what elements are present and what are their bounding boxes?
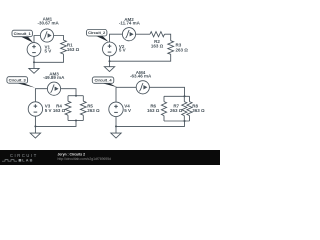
svg-text:163 Ω: 163 Ω bbox=[151, 44, 164, 49]
svg-text:5 V: 5 V bbox=[119, 48, 126, 53]
svg-text:Circuit_3: Circuit_3 bbox=[9, 77, 27, 82]
svg-text:163 Ω: 163 Ω bbox=[67, 47, 80, 52]
svg-text:Circuit_4: Circuit_4 bbox=[94, 78, 112, 83]
svg-text:Circuit_1: Circuit_1 bbox=[14, 31, 32, 36]
svg-text:-30.67 mA: -30.67 mA bbox=[37, 20, 59, 25]
svg-text:LAB: LAB bbox=[22, 158, 33, 163]
svg-text:Jeryn : Circuits 2: Jeryn : Circuits 2 bbox=[58, 153, 86, 157]
svg-text:5 V: 5 V bbox=[124, 108, 131, 113]
svg-text:363 Ω: 363 Ω bbox=[192, 108, 205, 113]
svg-text:-11.74 mA: -11.74 mA bbox=[119, 20, 141, 25]
svg-text:263 Ω: 263 Ω bbox=[176, 47, 189, 52]
svg-text:163 Ω: 163 Ω bbox=[147, 108, 160, 113]
svg-text:263 Ω: 263 Ω bbox=[87, 108, 100, 113]
svg-text:Circuit_2: Circuit_2 bbox=[88, 30, 106, 35]
svg-text:5 V: 5 V bbox=[45, 49, 52, 54]
svg-text:263 Ω: 263 Ω bbox=[170, 108, 183, 113]
svg-text:http://circuitlab.com/c2g1df76: http://circuitlab.com/c2g1df769695d bbox=[58, 157, 112, 161]
svg-text:-49.89 mA: -49.89 mA bbox=[43, 75, 65, 80]
svg-text:163 Ω: 163 Ω bbox=[53, 108, 66, 113]
svg-text:5 V: 5 V bbox=[45, 108, 52, 113]
svg-text:-63.46 mA: -63.46 mA bbox=[130, 73, 152, 78]
